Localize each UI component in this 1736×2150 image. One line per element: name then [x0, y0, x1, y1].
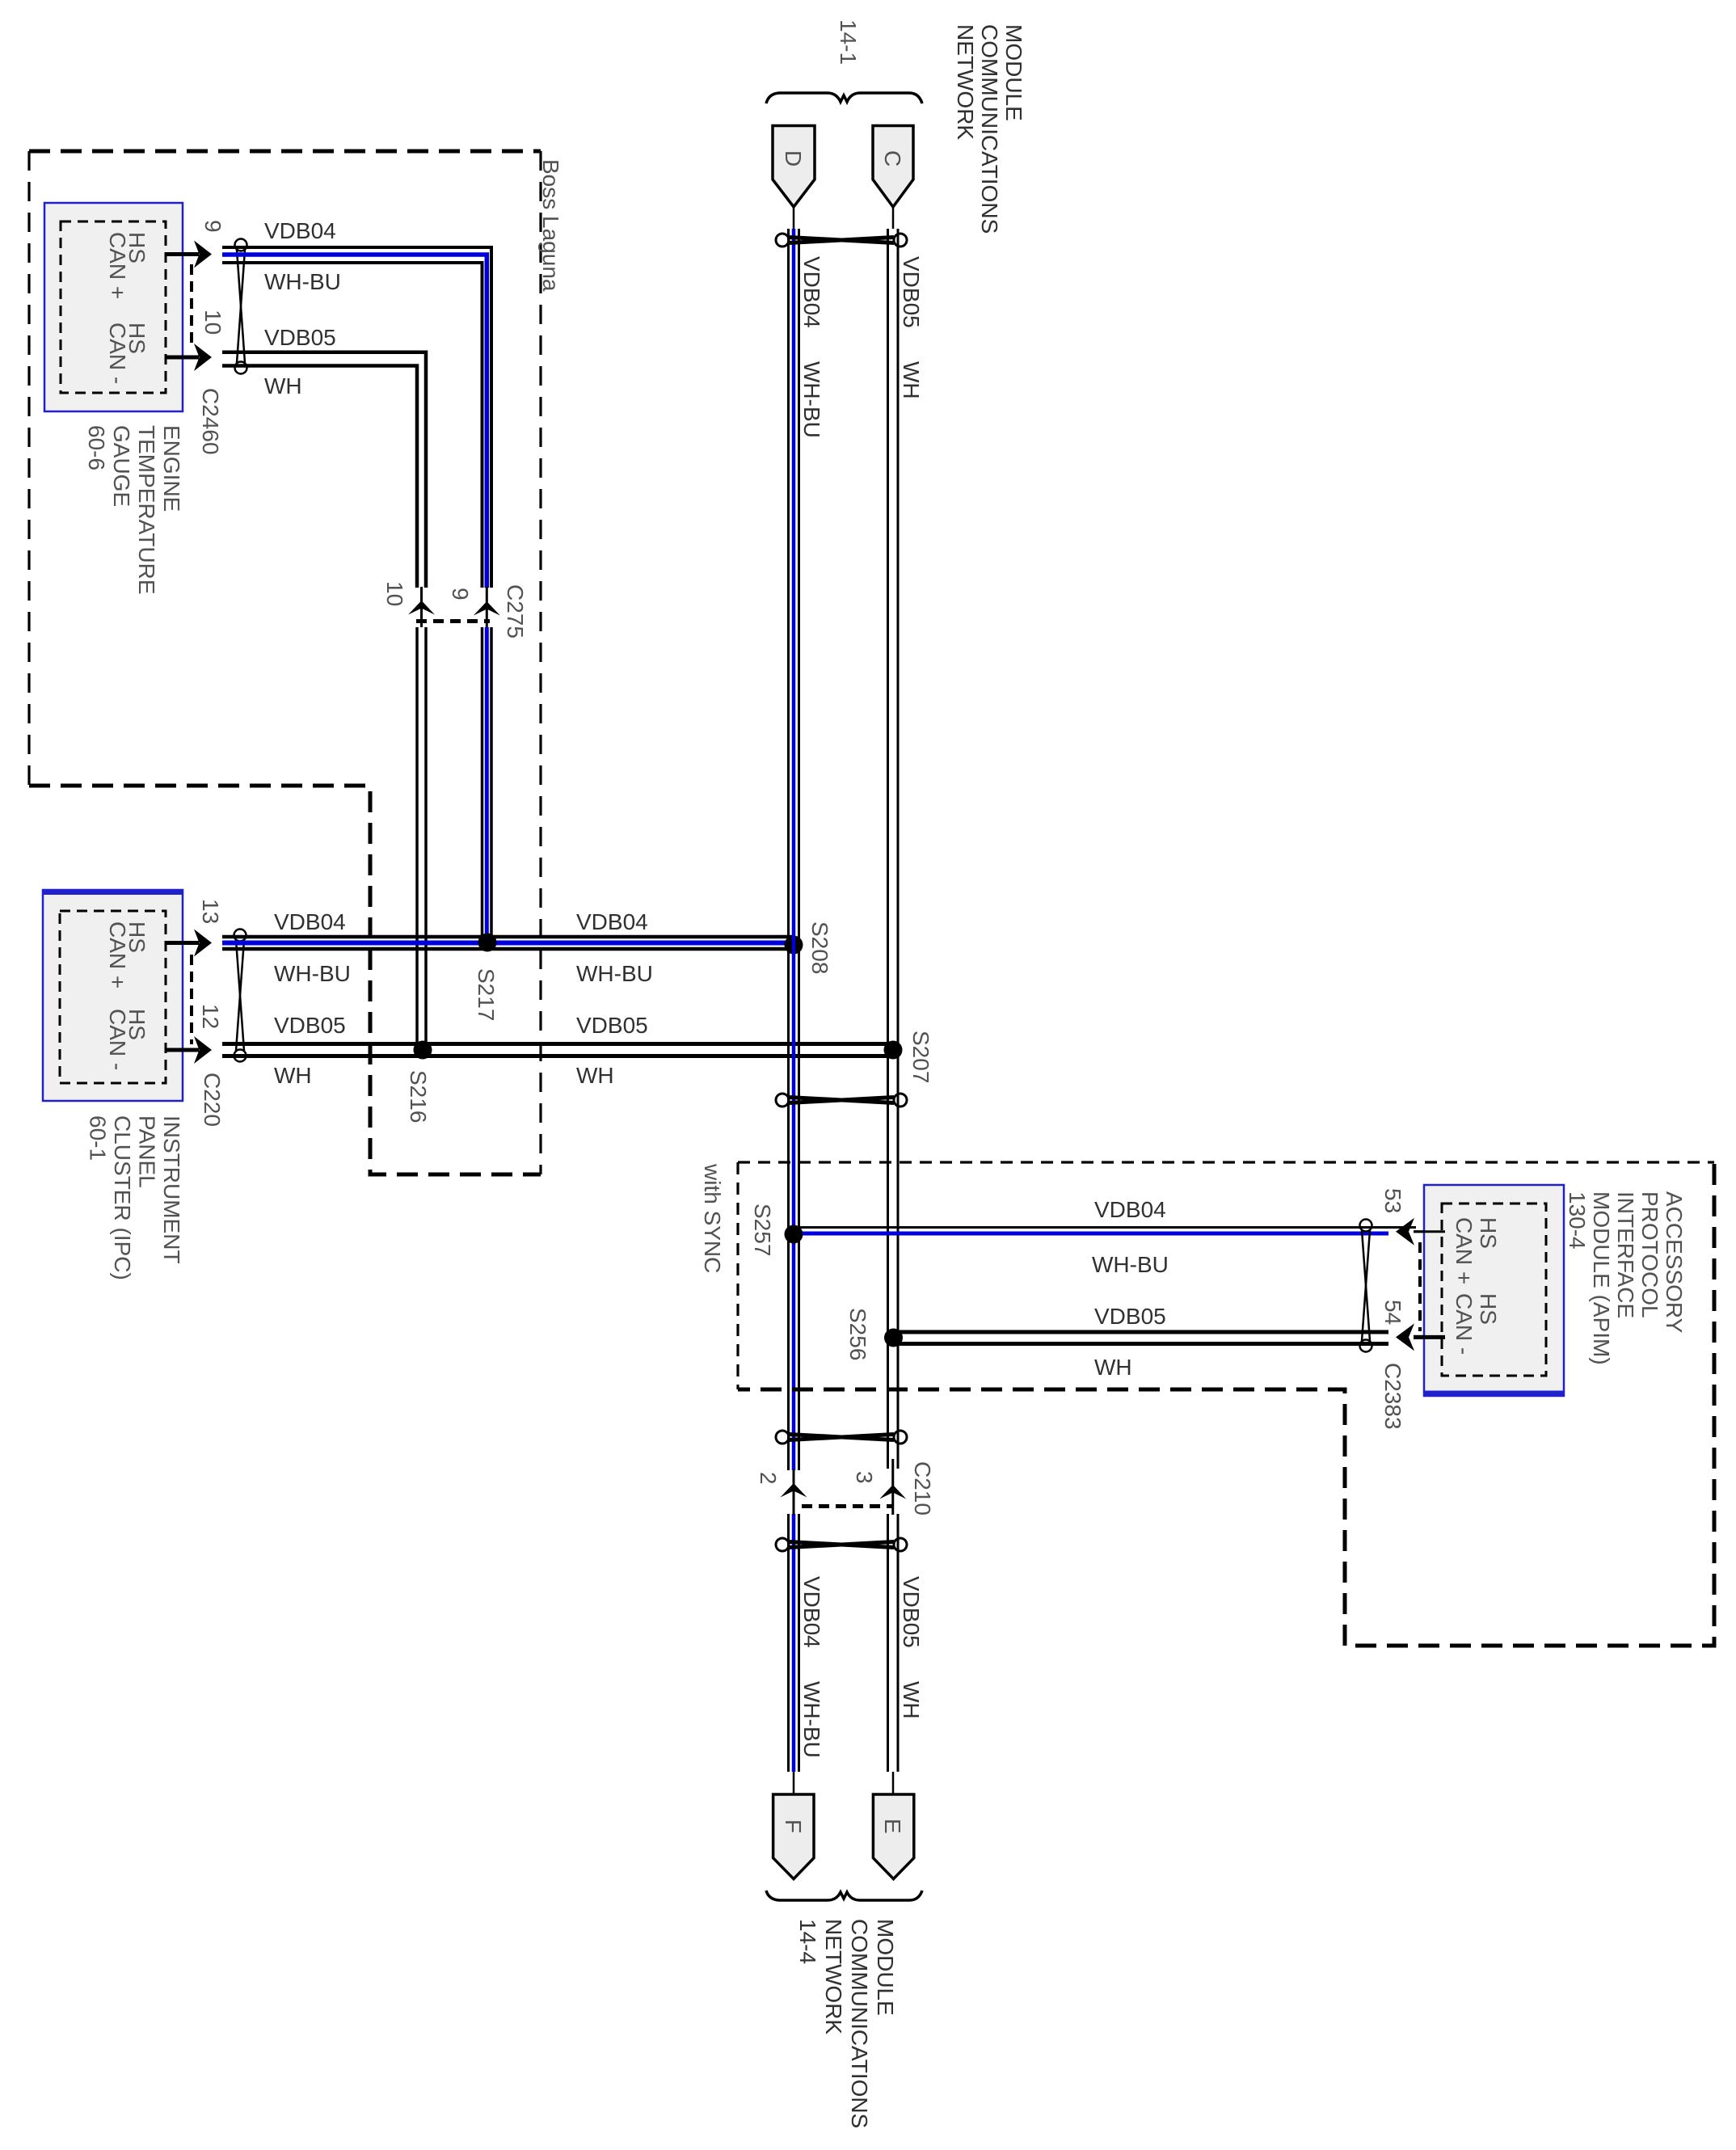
svg-text:WH: WH: [274, 1063, 312, 1088]
svg-text:WH-BU: WH-BU: [1092, 1252, 1169, 1277]
svg-text:VDB04: VDB04: [576, 909, 648, 934]
svg-text:53: 53: [1380, 1188, 1405, 1213]
component U2 INSTRUMENT PANEL CLUSTER box: [43, 890, 183, 1101]
svg-text:9: 9: [200, 220, 225, 233]
pin 12 (IPC): [166, 1004, 223, 1064]
svg-text:3: 3: [852, 1471, 877, 1484]
svg-text:VDB04: VDB04: [264, 218, 336, 243]
svg-text:E: E: [880, 1819, 905, 1834]
pin 13 (IPC): [166, 899, 223, 957]
splice S207: [884, 1041, 903, 1060]
component U1 ENGINE TEMPERATURE GAUGE box: [44, 203, 183, 411]
svg-text:13: 13: [198, 899, 223, 924]
connector flag F: [773, 1772, 814, 1879]
svg-text:VDB05: VDB05: [899, 256, 924, 328]
twisted pair symbol at C220: [234, 930, 246, 1062]
wire VDB04 WH-BU from IPC pin 13 to splice S208: [222, 937, 794, 949]
wire VDB05 WH from IPC pin 12 to splice S207: [222, 1044, 893, 1056]
svg-text:C275: C275: [503, 584, 528, 639]
twisted pair symbol bus 1: [776, 234, 907, 247]
svg-text:WH: WH: [576, 1063, 614, 1088]
twisted pair symbol bus 3: [776, 1431, 907, 1444]
svg-text:14-1: 14-1: [836, 19, 861, 65]
splice S256: [884, 1329, 903, 1347]
svg-text:D: D: [781, 150, 806, 167]
pin 9 (ETG): [166, 220, 225, 268]
svg-text:WH: WH: [899, 1681, 924, 1719]
twisted pair symbol bus 2: [776, 1094, 907, 1107]
twisted pair symbol at C2383: [1360, 1220, 1372, 1352]
svg-text:S256: S256: [845, 1308, 870, 1360]
svg-text:2: 2: [756, 1472, 781, 1485]
splice S216: [414, 1041, 432, 1060]
svg-text:10: 10: [200, 310, 225, 335]
svg-text:WH: WH: [1094, 1355, 1132, 1380]
svg-text:S216: S216: [406, 1070, 431, 1123]
brace bottom 14-4: [766, 1891, 922, 1900]
svg-text:12: 12: [198, 1004, 223, 1029]
svg-text:WH-BU: WH-BU: [576, 961, 653, 986]
component U3 APIM box: [1414, 1185, 1564, 1396]
wire VDB05 WH from S256 to APIM pin 54: [898, 1332, 1388, 1344]
svg-text:WH-BU: WH-BU: [264, 269, 341, 294]
splice S217: [478, 934, 497, 952]
svg-text:VDB05: VDB05: [274, 1013, 346, 1038]
option region box with SYNC: [738, 1162, 1714, 1389]
splice S257: [785, 1225, 803, 1244]
splice S208: [785, 936, 803, 955]
inline connector C210: [756, 1461, 935, 1516]
wire VDB04 WH-BU from C275 to splice S217: [482, 627, 492, 942]
connector flag C: [873, 126, 913, 230]
svg-text:S207: S207: [908, 1031, 933, 1083]
svg-text:F: F: [781, 1819, 806, 1833]
connector C2460 dashed link: [190, 264, 193, 348]
option region box Boss Laguna: [29, 151, 541, 1174]
svg-text:C: C: [880, 150, 905, 167]
svg-text:Boss Laguna: Boss Laguna: [538, 159, 563, 292]
svg-text:WH: WH: [264, 373, 302, 398]
svg-text:C220: C220: [200, 1073, 225, 1127]
pin 54 (APIM): [1380, 1300, 1442, 1351]
svg-text:WH-BU: WH-BU: [274, 961, 351, 986]
connector C220 dashed link: [190, 955, 193, 1044]
svg-text:WH-BU: WH-BU: [799, 361, 824, 438]
svg-text:S208: S208: [807, 921, 832, 974]
svg-text:VDB05: VDB05: [1094, 1304, 1166, 1329]
pin 53 (APIM): [1380, 1188, 1442, 1246]
svg-text:VDB05: VDB05: [899, 1576, 924, 1648]
svg-text:with SYNC: with SYNC: [700, 1163, 725, 1273]
pin 10 (ETG): [166, 310, 225, 371]
svg-text:C2460: C2460: [198, 388, 223, 455]
svg-text:S217: S217: [474, 968, 499, 1021]
bus wire VDB04 WH-BU (D to F): [789, 229, 799, 1772]
svg-text:C210: C210: [910, 1461, 935, 1516]
svg-text:WH: WH: [899, 361, 924, 399]
svg-text:VDB05: VDB05: [264, 325, 336, 350]
connector flag E: [873, 1772, 913, 1879]
inline connector C275: [382, 581, 528, 639]
connector C2383 dashed link: [1418, 1242, 1422, 1331]
svg-text:WH-BU: WH-BU: [799, 1681, 824, 1758]
wire VDB04 WH-BU from S257 to APIM pin 53: [798, 1228, 1416, 1234]
svg-text:VDB05: VDB05: [576, 1013, 648, 1038]
svg-text:54: 54: [1380, 1300, 1405, 1325]
svg-text:VDB04: VDB04: [274, 909, 346, 934]
brace top 14-1: [766, 93, 922, 103]
connector flag D: [773, 126, 815, 230]
wire VDB05 WH from ETG pin 10 to C275 pin 10: [222, 352, 426, 627]
wire VDB05 WH from C275 to splice S216: [417, 627, 426, 1050]
twisted pair symbol bus 4: [776, 1538, 907, 1551]
svg-text:S257: S257: [750, 1204, 775, 1256]
wire VDB04 WH-BU from ETG pin 9 to C275 pin 9: [222, 247, 491, 627]
svg-text:VDB04: VDB04: [1094, 1197, 1166, 1222]
svg-text:10: 10: [382, 581, 407, 606]
svg-text:C2383: C2383: [1380, 1363, 1405, 1430]
svg-text:VDB04: VDB04: [799, 1576, 824, 1648]
twisted pair symbol at C2460: [235, 239, 247, 374]
bus wire VDB05 WH (C to E): [888, 229, 899, 1772]
svg-text:9: 9: [448, 588, 473, 601]
svg-text:VDB04: VDB04: [799, 256, 824, 328]
